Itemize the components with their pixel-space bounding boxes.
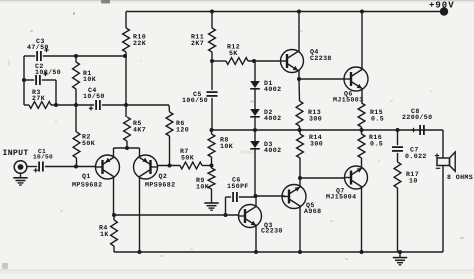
svg-text:50K: 50K xyxy=(181,154,194,161)
svg-text:10K: 10K xyxy=(83,76,96,83)
svg-text:100/50: 100/50 xyxy=(35,69,61,76)
svg-text:0.022: 0.022 xyxy=(405,153,427,160)
svg-text:10K: 10K xyxy=(196,183,209,190)
svg-text:10/50: 10/50 xyxy=(33,153,53,160)
svg-text:27K: 27K xyxy=(32,95,45,102)
svg-text:C2230: C2230 xyxy=(261,228,283,235)
svg-text:+90V: +90V xyxy=(429,1,455,11)
svg-text:0.5: 0.5 xyxy=(371,115,384,122)
svg-text:300: 300 xyxy=(309,115,322,122)
svg-text:C2238: C2238 xyxy=(310,55,332,62)
svg-text:150PF: 150PF xyxy=(227,183,249,190)
svg-text:MPS9682: MPS9682 xyxy=(145,181,176,188)
svg-text:50K: 50K xyxy=(82,140,95,147)
svg-text:Q1: Q1 xyxy=(82,173,91,180)
svg-text:1K: 1K xyxy=(100,231,109,238)
svg-text:INPUT: INPUT xyxy=(3,149,29,158)
svg-text:8 OHMS: 8 OHMS xyxy=(447,174,473,181)
svg-text:4002: 4002 xyxy=(264,86,281,93)
svg-text:47/50: 47/50 xyxy=(27,44,49,51)
svg-text:Q2: Q2 xyxy=(159,173,168,180)
svg-text:2200/50: 2200/50 xyxy=(402,114,433,121)
svg-text:5K: 5K xyxy=(229,50,238,57)
svg-text:2K7: 2K7 xyxy=(191,40,204,47)
svg-text:4K7: 4K7 xyxy=(133,126,146,133)
svg-text:120: 120 xyxy=(176,126,189,133)
svg-text:MPS9682: MPS9682 xyxy=(72,181,103,188)
svg-text:4002: 4002 xyxy=(264,115,281,122)
svg-text:22K: 22K xyxy=(133,40,146,47)
svg-text:100/50: 100/50 xyxy=(182,97,208,104)
svg-text:4002: 4002 xyxy=(264,147,281,154)
svg-text:0.5: 0.5 xyxy=(370,140,383,147)
svg-text:300: 300 xyxy=(310,140,323,147)
svg-text:10/50: 10/50 xyxy=(83,93,105,100)
svg-text:10: 10 xyxy=(409,177,418,184)
svg-text:10K: 10K xyxy=(220,143,233,150)
svg-text:MJ15003: MJ15003 xyxy=(333,96,364,103)
svg-text:A968: A968 xyxy=(304,208,321,215)
svg-text:MJ15004: MJ15004 xyxy=(326,193,357,200)
